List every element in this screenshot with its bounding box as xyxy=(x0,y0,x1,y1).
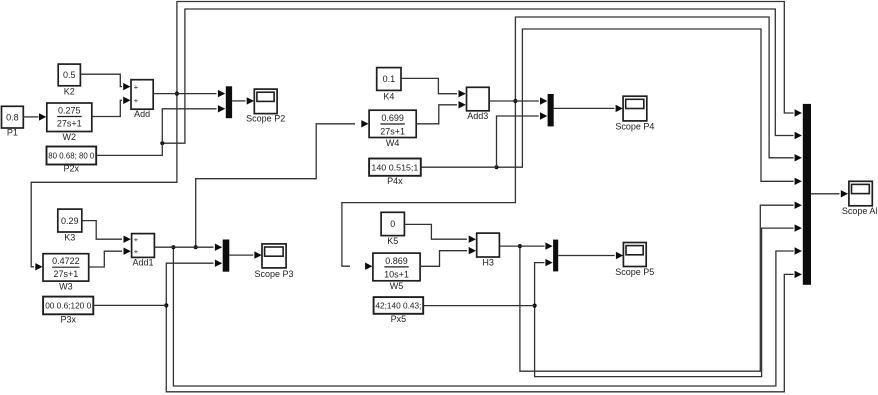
svg-text:Add: Add xyxy=(134,109,150,119)
wire net H3: bottom loop from junction to mux All input 5 xyxy=(520,202,802,372)
mux All collecting 8 signals xyxy=(803,104,811,285)
mux M3 for scope P3 xyxy=(223,240,230,272)
junction node Add1 output branch up xyxy=(194,245,198,249)
wire K5 to sum H3 input 1 xyxy=(404,224,476,243)
junction node Add3 output branch xyxy=(513,99,517,103)
scope Scope P3 xyxy=(254,244,293,279)
wire net Add1: up branch to W4 input xyxy=(196,120,369,247)
svg-text:K2: K2 xyxy=(64,87,75,97)
svg-text:+: + xyxy=(134,82,139,91)
wire net P3x: up branch to mux P3 input 2 xyxy=(166,260,222,306)
svg-text:0.699: 0.699 xyxy=(381,113,404,123)
svg-text:P4x: P4x xyxy=(387,176,403,186)
svg-text:42;140 0.43;: 42;140 0.43; xyxy=(375,301,421,311)
svg-text:0.29: 0.29 xyxy=(61,216,79,226)
wire net Add3: top loop from junction to mux All input 3 xyxy=(515,17,802,162)
svg-text:27s+1: 27s+1 xyxy=(57,119,82,129)
svg-text:80 0.68; 80 0: 80 0.68; 80 0 xyxy=(48,151,94,161)
wire W2 to sum Add input 2 xyxy=(92,97,131,117)
constant K2 value 0.5 xyxy=(58,64,80,96)
constant K3 value 0.29 xyxy=(58,209,82,242)
junction node Add output branch xyxy=(175,92,179,96)
constant P4x value 140 0.515;1 xyxy=(369,159,421,187)
svg-text:K3: K3 xyxy=(64,233,75,243)
scope Scope P5 xyxy=(615,243,654,278)
svg-text:27s+1: 27s+1 xyxy=(380,127,405,137)
svg-text:Scope P2: Scope P2 xyxy=(246,114,285,124)
svg-text:Scope P5: Scope P5 xyxy=(615,267,654,277)
wire K2 to sum Add input 1 xyxy=(80,74,130,90)
constant P1 value 0.8 xyxy=(2,106,24,137)
svg-text:140 0.515;1: 140 0.515;1 xyxy=(371,162,418,172)
svg-text:P1: P1 xyxy=(7,128,18,138)
svg-text:Add3: Add3 xyxy=(467,111,488,121)
junction node P2x branch xyxy=(160,141,164,145)
scope Scope P2 xyxy=(246,89,285,123)
svg-text:Add1: Add1 xyxy=(132,258,153,268)
constant P2x value 80 0.68; 80 0 xyxy=(47,147,97,174)
sum Add xyxy=(131,80,153,119)
wire mux M2 to scope P2 xyxy=(232,97,254,104)
mux M2 for scope P2 xyxy=(226,86,232,118)
svg-text:0.869: 0.869 xyxy=(385,256,408,266)
svg-text:W4: W4 xyxy=(386,138,400,148)
wire mux M3 to scope P3 xyxy=(229,251,261,258)
sum Add1 xyxy=(132,234,155,268)
transfer function W2 0.275/(27s+1) xyxy=(47,103,92,142)
wire mux All to scope All xyxy=(811,190,848,197)
svg-text:0.275: 0.275 xyxy=(58,106,81,116)
wire P2x to mux M2 input 2 xyxy=(96,105,225,155)
wire P3x to branch junction xyxy=(93,304,166,306)
wire net P2x: top loop from junction to mux All input 2 xyxy=(162,9,802,143)
wire H3 to mux M5 input 1 xyxy=(499,242,552,249)
svg-text:W3: W3 xyxy=(59,282,73,292)
sum Add3 xyxy=(467,87,490,121)
wire mux M5 to scope P5 xyxy=(558,252,623,259)
wire P4x to junction xyxy=(421,166,497,168)
wire net Add1: bottom loop from junction to mux All input 7 xyxy=(173,247,802,386)
svg-text:00 0.6;120 0: 00 0.6;120 0 xyxy=(45,301,91,311)
wire mux M4 to scope P4 xyxy=(554,105,623,112)
svg-text:0: 0 xyxy=(390,219,395,229)
svg-text:W5: W5 xyxy=(390,281,404,291)
transfer function W3 0.4722/(27s+1) xyxy=(43,254,89,292)
wire net P3x: bottom loop from junction to mux All input 8 xyxy=(166,271,802,392)
mux M4 for scope P4 xyxy=(548,94,554,126)
constant K5 value 0 xyxy=(381,212,404,246)
svg-text:W2: W2 xyxy=(63,132,77,142)
svg-text:Scope P4: Scope P4 xyxy=(615,122,654,132)
wire net Px5: bottom loop from junction to mux All input 6 xyxy=(535,224,802,376)
svg-text:+: + xyxy=(134,247,139,256)
wire K3 to sum Add1 input 1 xyxy=(82,221,131,243)
wire W3 to sum Add1 input 2 xyxy=(89,248,131,268)
constant K4 value 0.1 xyxy=(377,68,401,102)
wire Px5 to junction xyxy=(423,305,534,307)
svg-text:Scope All: Scope All xyxy=(842,206,878,216)
wire K4 to sum Add3 input 1 xyxy=(401,78,466,97)
svg-text:Scope P3: Scope P3 xyxy=(254,269,293,279)
junction node P4x branch to mux P4 xyxy=(494,165,498,169)
wire net Add: top loop from junction to mux All input 1 xyxy=(177,2,802,117)
junction node Px5 branch xyxy=(533,304,537,308)
svg-text:0.1: 0.1 xyxy=(383,74,396,84)
svg-text:10s+1: 10s+1 xyxy=(384,270,409,280)
svg-text:P2x: P2x xyxy=(64,164,80,174)
svg-text:27s+1: 27s+1 xyxy=(54,269,79,279)
junction node H3 output branch xyxy=(518,244,522,248)
scope Scope P4 xyxy=(615,96,654,131)
svg-text:0.8: 0.8 xyxy=(6,112,19,122)
junction node P3x branch xyxy=(164,303,168,307)
wire P4x junction to mux M4 input 2 xyxy=(497,112,548,167)
wire W4 to sum Add3 input 2 xyxy=(416,101,466,124)
svg-text:Px5: Px5 xyxy=(391,314,407,324)
wire Add to mux M2 input 1 xyxy=(153,90,225,97)
wire net Add: down branch to W3 input xyxy=(31,94,177,271)
constant Px5 value 42;140 0.43; xyxy=(374,297,424,324)
transfer function W4 0.699/(27s+1) xyxy=(369,110,416,148)
sum H3 xyxy=(477,233,500,267)
wire P1 to W2 xyxy=(23,113,46,120)
svg-text:H3: H3 xyxy=(482,258,494,268)
wire Add1 to mux M3 input 1 xyxy=(154,244,222,251)
svg-text:0.4722: 0.4722 xyxy=(52,256,80,266)
svg-text:0.5: 0.5 xyxy=(63,70,76,80)
svg-text:+: + xyxy=(134,235,139,244)
wire net P4x: top loop from junction to mux All input 4 xyxy=(497,29,802,185)
wire Add3 to mux M4 input 1 xyxy=(489,97,547,104)
scope Scope All xyxy=(842,181,878,216)
wire W5 to sum H3 input 2 xyxy=(420,247,476,266)
mux M5 for scope P5 xyxy=(553,240,558,272)
wire net Add3: down branch to W5 input xyxy=(342,101,516,270)
svg-text:K5: K5 xyxy=(387,236,398,246)
transfer function W5 0.869/(10s+1) xyxy=(373,253,420,291)
junction node Add1 output branch down xyxy=(171,245,175,249)
svg-text:+: + xyxy=(134,96,139,105)
constant P3x value 00 0.6;120 0 xyxy=(43,297,93,325)
svg-text:K4: K4 xyxy=(383,92,394,102)
svg-text:P3x: P3x xyxy=(60,314,76,324)
wire net Px5: up branch to mux P5 input 2 xyxy=(535,259,553,306)
